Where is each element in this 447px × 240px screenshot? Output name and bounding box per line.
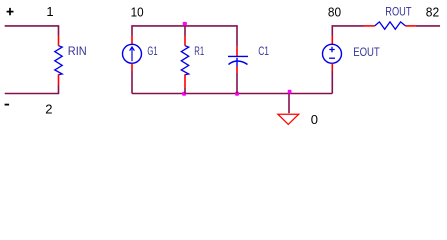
wire EOUT top — [332, 26, 364, 36]
wire bottom-left — [5, 85, 59, 94]
junction node 10 top of R1 — [183, 22, 187, 25]
wire bottom-middle — [132, 93, 332, 95]
svg-text:G1: G1 — [147, 44, 157, 58]
wire to node 82 — [416, 25, 440, 27]
svg-text:EOUT: EOUT — [353, 45, 380, 59]
voltage source EOUT — [323, 36, 342, 72]
svg-text:2: 2 — [45, 101, 52, 116]
svg-text:R1: R1 — [194, 44, 204, 58]
wire left-middle down — [131, 71, 133, 94]
junction bottom of R1 — [182, 92, 186, 96]
svg-text:1: 1 — [46, 4, 53, 19]
svg-text:80: 80 — [328, 5, 341, 20]
svg-text:RIN: RIN — [68, 44, 87, 58]
svg-text:C1: C1 — [258, 44, 269, 58]
capacitor C1 — [228, 46, 248, 73]
wire ground stub — [288, 94, 290, 114]
svg-text:82: 82 — [426, 4, 439, 19]
junction bottom of C1 — [235, 92, 239, 96]
wire top-left — [5, 26, 59, 36]
current source G1 — [123, 36, 142, 72]
svg-text:ROUT: ROUT — [385, 4, 412, 18]
ground symbol — [278, 114, 299, 124]
junction ground node — [288, 90, 292, 94]
wire EOUT bottom — [331, 71, 333, 94]
terminal plus — [7, 8, 14, 15]
terminal minus — [5, 104, 10, 106]
resistor RIN — [55, 36, 62, 86]
wire C1 bottom stub — [236, 73, 238, 94]
svg-text:0: 0 — [311, 112, 318, 127]
wire top-middle — [132, 26, 237, 47]
wire R1 bottom stub — [184, 88, 186, 94]
resistor R1 — [181, 36, 188, 89]
wire R1 top stub — [184, 26, 186, 36]
resistor ROUT — [364, 22, 416, 29]
svg-text:10: 10 — [131, 4, 144, 19]
